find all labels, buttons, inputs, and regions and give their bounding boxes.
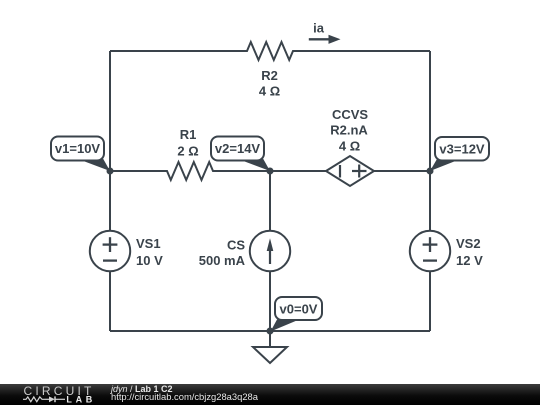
wire right vertical upper [429, 51, 431, 231]
svg-text:CCVS: CCVS [332, 107, 368, 122]
svg-text:R2: R2 [261, 68, 278, 83]
svg-text:LAB: LAB [66, 394, 96, 404]
svg-text:VS1: VS1 [136, 236, 161, 251]
svg-text:ia: ia [313, 21, 325, 36]
svg-text:v3=12V: v3=12V [439, 142, 485, 157]
dependent source CCVS diamond [326, 156, 374, 186]
svg-text:v0=0V: v0=0V [280, 302, 318, 317]
footer logo resistor glyph [23, 397, 45, 402]
node junction v0 [267, 328, 274, 335]
wire middle between R1 and CCVS [216, 170, 326, 172]
node junction v2 [267, 168, 274, 175]
svg-text:12 V: 12 V [456, 253, 483, 268]
svg-text:R1: R1 [180, 127, 197, 142]
wire left vertical lower [109, 271, 111, 331]
svg-text:v1=10V: v1=10V [55, 141, 101, 156]
svg-text:VS2: VS2 [456, 236, 481, 251]
current source CS [250, 231, 290, 271]
svg-text:2 Ω: 2 Ω [177, 144, 198, 159]
node label v2=14V [211, 137, 270, 172]
svg-text:CS: CS [227, 237, 245, 252]
svg-text:10 V: 10 V [136, 253, 163, 268]
wire middle right segment [374, 170, 430, 172]
svg-text:4 Ω: 4 Ω [339, 139, 360, 154]
wire right vertical lower [429, 271, 431, 331]
wire left vertical upper [109, 51, 111, 231]
svg-text:4 Ω: 4 Ω [259, 84, 280, 99]
footer bar [0, 384, 540, 405]
svg-text:R2.nA: R2.nA [330, 123, 368, 138]
wire middle left segment [110, 170, 167, 172]
ground symbol [253, 331, 287, 363]
svg-text:v2=14V: v2=14V [215, 141, 261, 156]
wire top right segment [296, 50, 430, 52]
voltage source VS1 [90, 231, 130, 271]
node label v0=0V [271, 297, 323, 332]
wire CS branch upper [269, 171, 271, 231]
voltage source VS2 [410, 231, 450, 271]
svg-text:500 mA: 500 mA [199, 253, 246, 268]
node junction v3 [427, 168, 434, 175]
current arrow ia [309, 35, 341, 44]
svg-text:http://circuitlab.com/cbjzg28a: http://circuitlab.com/cbjzg28a3q28a [111, 391, 259, 402]
wire CS branch lower [269, 271, 271, 331]
node label v3=12V [430, 137, 489, 171]
resistor R1 [164, 162, 216, 180]
node label v1=10V [51, 137, 110, 172]
wire top left segment [110, 50, 244, 52]
footer logo diode glyph [45, 396, 66, 402]
node junction v1 [107, 168, 114, 175]
resistor R2 [244, 42, 296, 60]
wire bottom horizontal [110, 330, 430, 332]
